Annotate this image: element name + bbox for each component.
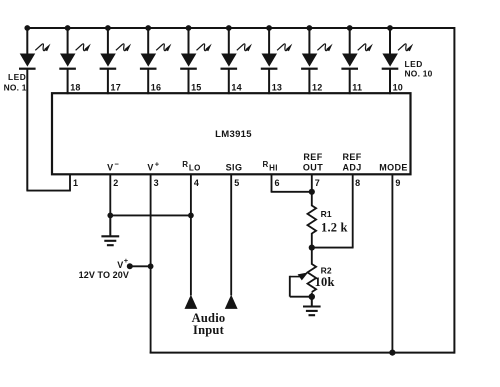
pin number 2	[113, 178, 118, 188]
svg-text:12V TO 20V: 12V TO 20V	[79, 270, 129, 280]
svg-text:MODE: MODE	[379, 163, 408, 173]
svg-text:REF: REF	[342, 152, 361, 162]
svg-text:1: 1	[73, 178, 78, 188]
label R1	[321, 209, 332, 219]
pin number 16	[151, 82, 161, 92]
pin name RHI (pin 6)	[263, 160, 278, 173]
svg-text:LED: LED	[8, 72, 26, 82]
label 10k value	[315, 275, 335, 289]
svg-text:−: −	[115, 159, 120, 168]
svg-text:10k: 10k	[315, 275, 335, 289]
pin name V+ (pin 3)	[147, 159, 159, 172]
svg-text:ADJ: ADJ	[342, 163, 361, 173]
pin name MODE (pin 9)	[379, 163, 408, 173]
pin number 15	[191, 82, 201, 92]
pin number 9	[395, 178, 400, 188]
terminal V+ supply dot	[127, 263, 133, 269]
label V+ supply	[117, 256, 129, 270]
svg-text:OUT: OUT	[303, 163, 323, 173]
svg-text:+: +	[124, 256, 129, 265]
pin name REF OUT (pin 7)	[303, 152, 323, 173]
pin number 6	[275, 178, 280, 188]
svg-text:9: 9	[395, 178, 400, 188]
junction pin 6 wire on pin 7 line	[309, 189, 315, 195]
svg-text:17: 17	[111, 82, 121, 92]
junction at pin 4 on ground rail	[188, 213, 194, 219]
svg-text:NO. 1: NO. 1	[4, 82, 27, 92]
svg-text:3: 3	[154, 178, 159, 188]
pin name RLO (pin 4)	[182, 160, 201, 173]
wire top V+ bus to LED anodes	[25, 27, 454, 29]
junction on top bus at LED 3	[105, 25, 111, 31]
wire V+ terminal to pin 3	[130, 265, 151, 267]
ground G2 (R2 ground)	[303, 297, 321, 316]
pin number 13	[272, 82, 282, 92]
svg-text:V: V	[107, 162, 113, 172]
svg-text:LM3915: LM3915	[215, 129, 252, 140]
svg-text:18: 18	[70, 82, 80, 92]
LED D3 (LED No. 3)	[100, 28, 132, 94]
svg-text:11: 11	[352, 82, 362, 92]
svg-text:R1: R1	[321, 209, 332, 219]
svg-text:12: 12	[312, 82, 322, 92]
junction on top bus at LED 9	[347, 25, 353, 31]
wire pin 5 (SIG) down to audio input	[230, 174, 232, 295]
terminal audio input B (pin 5)	[225, 295, 238, 309]
terminal audio input A (pin 4)	[185, 295, 198, 309]
wiper arrow of R2	[290, 272, 308, 280]
LED D1 (LED No. 1)	[19, 28, 51, 191]
junction on top bus at LED 6	[226, 25, 232, 31]
wire ground rail pin2 to pin4	[110, 214, 191, 216]
label LM3915	[215, 129, 252, 140]
LED D10 (LED No. 10)	[382, 28, 414, 94]
pin number 12	[312, 82, 322, 92]
pin number 5	[234, 178, 239, 188]
wire pin 8 (REF ADJ) down	[352, 174, 354, 247]
pin number 11	[352, 82, 362, 92]
label Audio Input	[192, 311, 226, 337]
junction on top bus at LED 7	[266, 25, 272, 31]
wire R2 wiper return	[290, 276, 312, 297]
pin number 17	[111, 82, 121, 92]
node R1/R2/REF-ADJ junction	[309, 245, 315, 251]
junction on top bus at LED 2	[65, 25, 71, 31]
wire R2 bottom	[311, 293, 313, 297]
wire pin 3 (V+) vertical	[150, 174, 152, 353]
junction on top bus at LED 8	[307, 25, 313, 31]
pin name SIG (pin 5)	[226, 163, 243, 173]
label LED NO. 1	[4, 72, 27, 92]
pin name V− (pin 2)	[107, 159, 119, 172]
pin number 4	[194, 178, 199, 188]
LED D2 (LED No. 2)	[59, 28, 91, 94]
wire pin 4 (RLO) down to audio input	[190, 174, 192, 295]
LED D4 (LED No. 4)	[140, 28, 172, 94]
svg-text:4: 4	[194, 178, 199, 188]
pin number 3	[154, 178, 159, 188]
pin name REF ADJ (pin 8)	[342, 152, 361, 173]
junction on top bus at LED 1	[24, 25, 30, 31]
ground G1 (V− ground)	[101, 215, 119, 245]
svg-text:LED: LED	[405, 59, 423, 69]
svg-text:Input: Input	[193, 323, 225, 337]
potentiometer R2	[307, 264, 316, 292]
svg-text:13: 13	[272, 82, 282, 92]
op-amp IC U1 LM3915 body	[52, 93, 411, 174]
wire R1 to junction	[311, 233, 313, 248]
svg-text:REF: REF	[303, 152, 322, 162]
svg-text:SIG: SIG	[226, 163, 243, 173]
wire pin 1 to LED No.1 cathode	[26, 190, 70, 192]
svg-text:15: 15	[191, 82, 201, 92]
svg-text:1.2 k: 1.2 k	[321, 221, 348, 235]
svg-text:V: V	[147, 162, 153, 172]
label LED NO. 10	[405, 59, 433, 79]
junction V+ on pin 3 line	[148, 263, 154, 269]
svg-text:R: R	[263, 160, 269, 169]
wire bottom bus from V+ node to right edge	[150, 352, 455, 354]
label R2	[321, 265, 332, 275]
wire pin 8 to R1 bottom junction	[312, 247, 354, 249]
svg-text:R: R	[182, 160, 188, 169]
resistor R1	[307, 206, 316, 234]
junction on top bus at LED 4	[145, 25, 151, 31]
svg-text:5: 5	[234, 178, 239, 188]
node pin2/pin4 ground rail junction at pin 2	[107, 213, 113, 219]
wire pin 2 (V−) down to ground node	[109, 174, 111, 215]
junction on top bus at LED 10	[387, 25, 393, 31]
wire right edge from top bus down to bottom bus	[453, 27, 455, 354]
svg-text:HI: HI	[269, 164, 278, 173]
wire pin 6 (RHI) stub down	[271, 174, 273, 192]
LED D7 (LED No. 7)	[261, 28, 293, 94]
LED D5 (LED No. 5)	[180, 28, 212, 94]
label 1.2 k value	[321, 221, 348, 235]
svg-text:LO: LO	[189, 164, 201, 173]
wire pin 9 (MODE) down to bottom bus	[391, 174, 393, 352]
pin number 18	[70, 82, 80, 92]
pin number 14	[231, 82, 241, 92]
label 12V TO 20V	[79, 270, 129, 280]
svg-text:+: +	[155, 159, 160, 168]
svg-text:2: 2	[113, 178, 118, 188]
svg-text:7: 7	[315, 178, 320, 188]
pin number 7	[315, 178, 320, 188]
junction on top bus at LED 5	[186, 25, 192, 31]
svg-text:16: 16	[151, 82, 161, 92]
svg-text:V: V	[117, 260, 123, 270]
svg-text:8: 8	[355, 178, 360, 188]
LED D9 (LED No. 9)	[341, 28, 373, 94]
svg-text:14: 14	[231, 82, 241, 92]
node R2 bottom / ground junction	[309, 294, 315, 300]
wire pin 1 stub down	[69, 174, 71, 190]
svg-text:NO. 10: NO. 10	[405, 69, 433, 79]
pin number 1	[73, 178, 78, 188]
LED D6 (LED No. 6)	[221, 28, 253, 94]
junction pin 9 on bottom bus	[389, 350, 395, 356]
wire pin 7 (REF OUT) to R1	[311, 174, 313, 206]
wire pin 6 to pin 7 (REF OUT)	[271, 191, 312, 193]
pin number 10	[393, 82, 403, 92]
wire junction to R2	[311, 248, 313, 265]
svg-text:6: 6	[275, 178, 280, 188]
pin number 8	[355, 178, 360, 188]
svg-text:10: 10	[393, 82, 403, 92]
LED D8 (LED No. 8)	[301, 28, 333, 94]
